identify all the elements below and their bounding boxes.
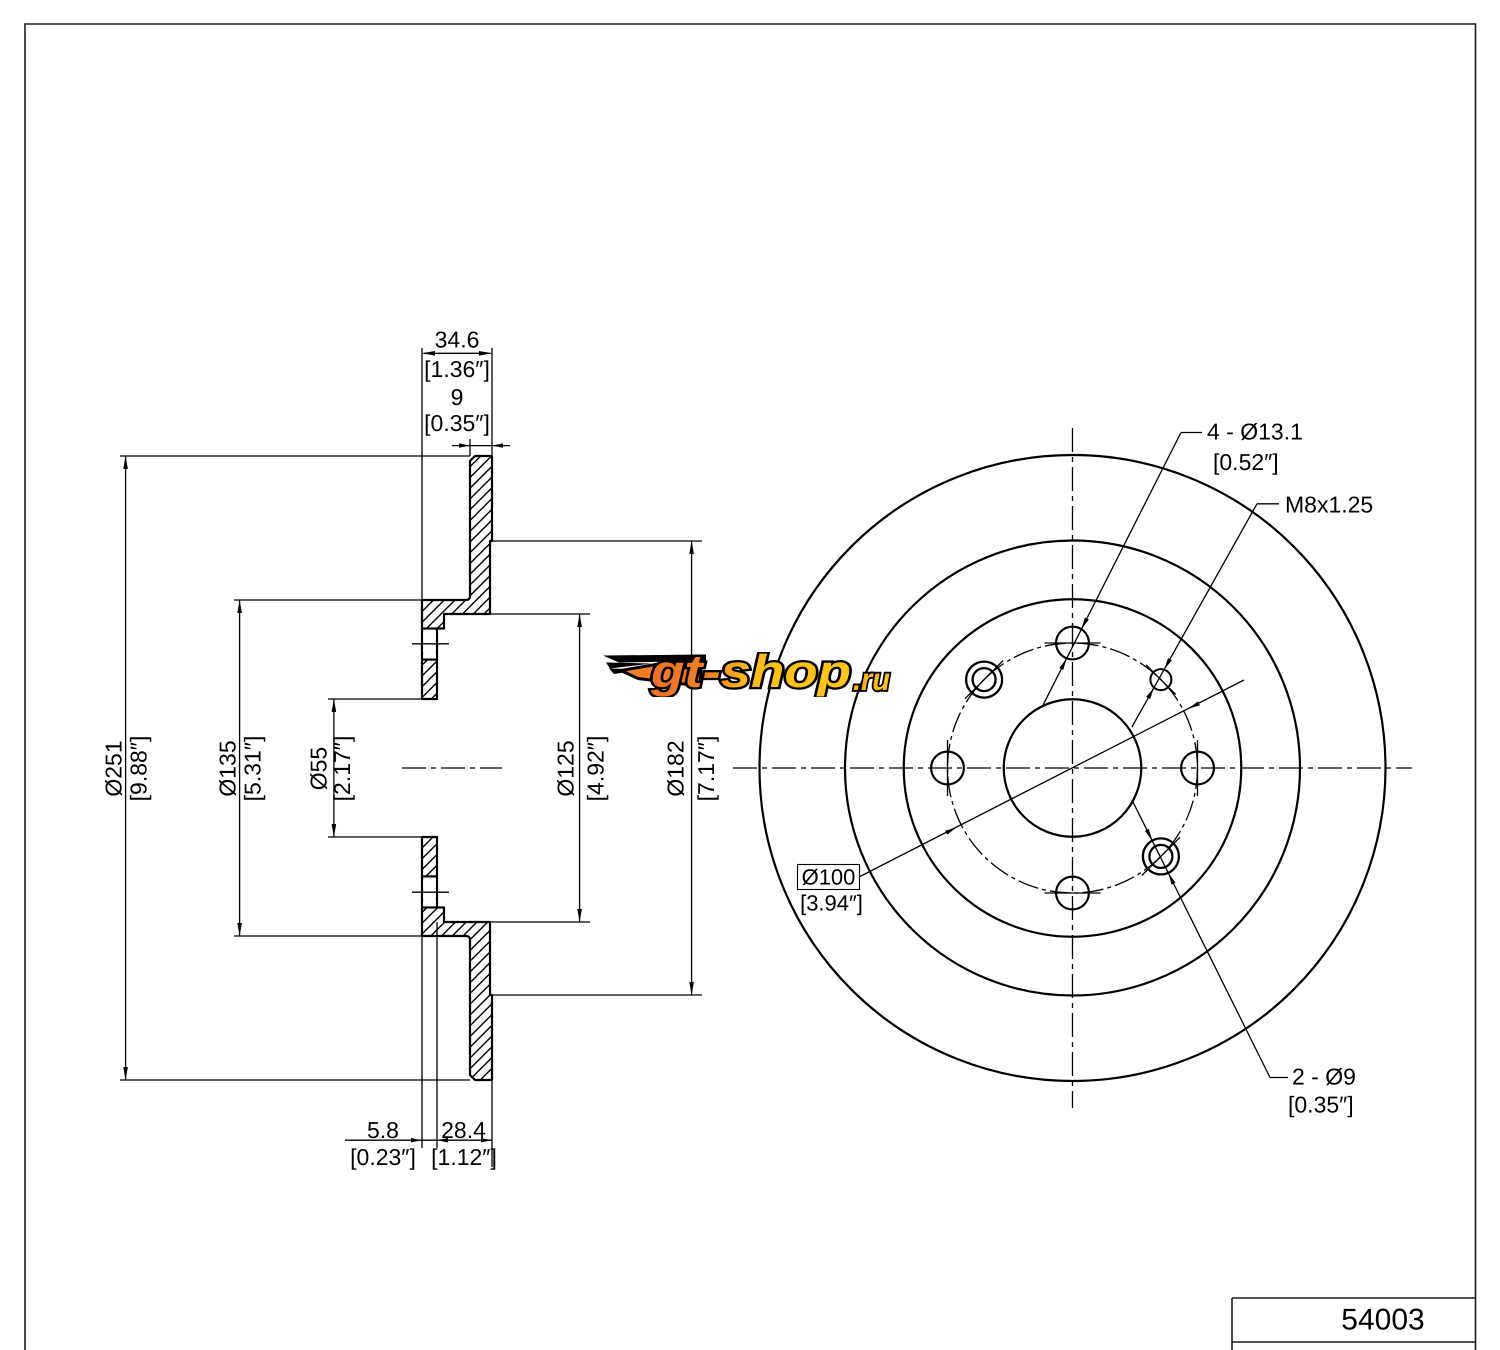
svg-text:.ru: .ru: [853, 662, 890, 697]
svg-text:[0.23″]: [0.23″]: [350, 1144, 416, 1170]
svg-text:Ø182: Ø182: [663, 740, 689, 796]
svg-text:Ø135: Ø135: [215, 740, 241, 796]
svg-text:[3.94″]: [3.94″]: [800, 891, 863, 916]
svg-text:9: 9: [451, 384, 464, 410]
svg-text:Ø100: Ø100: [802, 865, 856, 890]
svg-text:[1.12″]: [1.12″]: [431, 1144, 497, 1170]
svg-text:5.8: 5.8: [367, 1117, 399, 1143]
svg-text:[5.31″]: [5.31″]: [240, 736, 266, 802]
svg-text:34.6: 34.6: [435, 327, 480, 353]
svg-text:[2.17″]: [2.17″]: [329, 736, 355, 802]
svg-text:Ø125: Ø125: [553, 740, 579, 796]
svg-text:54003: 54003: [1341, 1304, 1424, 1337]
svg-text:[0.35″]: [0.35″]: [424, 410, 490, 436]
svg-text:[9.88″]: [9.88″]: [126, 736, 152, 802]
svg-text:M8x1.25: M8x1.25: [1285, 492, 1373, 518]
svg-text:4 - Ø13.1: 4 - Ø13.1: [1207, 419, 1303, 445]
svg-text:[4.92″]: [4.92″]: [583, 736, 609, 802]
svg-text:Ø251: Ø251: [101, 740, 127, 796]
svg-text:[7.17″]: [7.17″]: [693, 736, 719, 802]
svg-text:[0.35″]: [0.35″]: [1288, 1092, 1354, 1118]
svg-text:[1.36″]: [1.36″]: [424, 356, 490, 382]
svg-text:[0.52″]: [0.52″]: [1213, 449, 1279, 475]
svg-text:2 - Ø9: 2 - Ø9: [1292, 1064, 1356, 1090]
svg-text:28.4: 28.4: [441, 1117, 486, 1143]
svg-text:gt-shop: gt-shop: [650, 645, 851, 697]
svg-text:Ø55: Ø55: [306, 747, 332, 790]
